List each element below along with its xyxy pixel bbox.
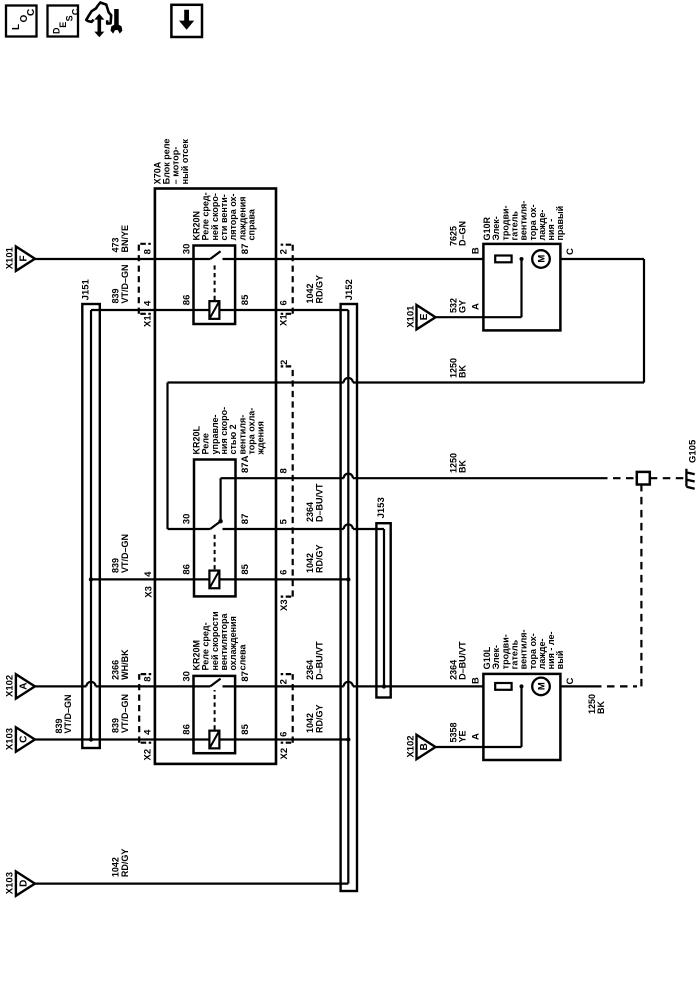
label KR20M bbox=[192, 611, 248, 670]
G10R motor symbol M bbox=[532, 250, 550, 268]
relay KR20M box bbox=[194, 676, 236, 753]
svg-text:X2: X2 bbox=[142, 749, 153, 761]
relay KR20L box bbox=[194, 460, 236, 597]
svg-text:6: 6 bbox=[279, 732, 290, 737]
svg-text:87A: 87A bbox=[240, 455, 251, 473]
G10L pin letters bbox=[471, 677, 576, 740]
svg-text:8: 8 bbox=[279, 468, 290, 473]
KR20M pin labels bbox=[181, 671, 251, 735]
connector X101 pin F (right fan feed) bbox=[5, 246, 35, 271]
svg-text:GY: GY bbox=[458, 300, 468, 313]
wire label 2364 D-BU/VT b bbox=[305, 641, 324, 680]
svg-text:4: 4 bbox=[143, 571, 154, 577]
label KR20N bbox=[192, 192, 257, 240]
ground dashed stem to G105 bbox=[650, 477, 684, 479]
wire label 5358 YE bbox=[448, 722, 467, 742]
G10L internal resistor bbox=[495, 683, 511, 690]
wire label 1250 BK a bbox=[448, 358, 467, 378]
G10R pin letters bbox=[471, 247, 576, 310]
wire 1250 BK : KR20L.87A to X3-8 to ground node bbox=[236, 477, 344, 479]
svg-text:YE: YE bbox=[458, 730, 468, 742]
svg-text:A: A bbox=[471, 733, 482, 740]
svg-text:6: 6 bbox=[279, 570, 290, 575]
KR20L pin labels bbox=[181, 455, 251, 574]
label X70A bbox=[152, 139, 189, 185]
wire label 2364 D-BU/VT c bbox=[448, 641, 467, 680]
wire 839 VT/D-GN : splice J151 to X3-4 to KR20L coil 86 bbox=[91, 578, 209, 580]
ground splice node (square) bbox=[637, 472, 650, 485]
svg-text:2: 2 bbox=[278, 249, 289, 254]
wire label 839 VT/D-GN c bbox=[54, 694, 73, 733]
svg-text:X103: X103 bbox=[5, 872, 16, 894]
connector X3 dashed line (right, pins 2/8/5/6) bbox=[281, 595, 292, 597]
label G10L bbox=[482, 630, 565, 670]
wire label 1250 BK c bbox=[587, 694, 606, 714]
svg-text:30: 30 bbox=[181, 514, 192, 525]
svg-text:2: 2 bbox=[279, 679, 290, 684]
wire 839 VT/D-GN : splice J151 to X1-4 to KR20N coil 86 bbox=[91, 309, 209, 311]
connector X2 dashed line (right, pins 2/6) bbox=[281, 742, 292, 744]
wire label 839 VT/D-GN bbox=[111, 264, 130, 303]
svg-text:A: A bbox=[471, 303, 482, 310]
svg-text:C: C bbox=[26, 9, 37, 16]
G10L motor symbol M bbox=[532, 678, 550, 696]
svg-text:ный отсек: ный отсек bbox=[180, 139, 190, 185]
icon box with down arrow bbox=[171, 5, 202, 37]
relay block X70A box bbox=[155, 189, 276, 764]
svg-text:85: 85 bbox=[240, 723, 251, 734]
connector X103 pin D (fan low feed) bbox=[5, 871, 35, 895]
svg-text:VT/D–GN: VT/D–GN bbox=[120, 534, 130, 573]
svg-text:85: 85 bbox=[240, 294, 251, 305]
label KR20L bbox=[192, 407, 266, 456]
wire label 1042 RD/GY b bbox=[305, 544, 324, 573]
relay KR20M coil-blade dashed link bbox=[214, 690, 216, 730]
svg-text:J151: J151 bbox=[80, 278, 91, 300]
svg-text:L: L bbox=[11, 24, 22, 30]
svg-text:M: M bbox=[536, 255, 547, 263]
wire 2366 WH/BK : X102-A to X2-8 to KR20M.30 bbox=[35, 685, 87, 687]
connector X1 dashed line (left, pins 8/4) bbox=[140, 313, 151, 315]
wire label 1042 RD/GY d bbox=[111, 849, 130, 878]
wire label 839 VT/D-GN d bbox=[111, 694, 130, 733]
wire label 7625 D-GN bbox=[448, 221, 467, 246]
icon LOC button bbox=[6, 6, 37, 37]
svg-text:D–BU/VT: D–BU/VT bbox=[314, 641, 324, 680]
svg-text:слева: слева bbox=[237, 643, 247, 670]
svg-text:30: 30 bbox=[181, 244, 192, 255]
svg-text:VT/D–GN: VT/D–GN bbox=[120, 264, 130, 303]
wire label 1042 RD/GY c bbox=[305, 704, 324, 733]
svg-text:X103: X103 bbox=[5, 728, 16, 750]
svg-text:X102: X102 bbox=[405, 735, 416, 757]
splice pack J153 bbox=[376, 523, 390, 697]
wire label 2366 WH/BK bbox=[111, 649, 130, 680]
wire label 532 GY bbox=[448, 298, 467, 313]
wire 473 BN/YE : X101-F down to KR20N pin 30 bbox=[35, 258, 210, 260]
relay KR20L coil 86-85 bbox=[209, 571, 219, 589]
svg-text:X1: X1 bbox=[279, 314, 290, 326]
svg-text:A: A bbox=[18, 682, 29, 689]
connector X101 pin E (right fan low) bbox=[405, 305, 435, 330]
svg-text:C: C bbox=[70, 8, 80, 15]
relay KR20L switch blade 30-87/87A bbox=[210, 521, 220, 529]
wire 1250 BK : G10L pin C to ground node (dashed) bbox=[560, 685, 594, 687]
relay KR20N coil-blade dashed link bbox=[214, 263, 216, 301]
svg-text:X2: X2 bbox=[279, 748, 290, 760]
relay KR20N switch blade 30-87 bbox=[210, 251, 220, 259]
ground symbol G105 bbox=[686, 439, 698, 489]
svg-text:C: C bbox=[18, 736, 29, 743]
icon car outline with arrows and wrench bbox=[86, 3, 122, 38]
relay KR20M coil 86-85 bbox=[209, 731, 219, 749]
KR20N pin labels bbox=[181, 244, 251, 306]
svg-text:BK: BK bbox=[458, 365, 468, 378]
motor G10L box bbox=[483, 674, 560, 760]
svg-text:C: C bbox=[565, 678, 576, 685]
svg-text:правый: правый bbox=[555, 206, 565, 241]
svg-text:X102: X102 bbox=[5, 675, 16, 697]
svg-text:J153: J153 bbox=[376, 497, 387, 518]
svg-text:87: 87 bbox=[240, 244, 251, 255]
svg-text:D–GN: D–GN bbox=[458, 221, 468, 246]
svg-text:S: S bbox=[64, 15, 74, 21]
svg-text:G105: G105 bbox=[688, 439, 699, 463]
svg-text:85: 85 bbox=[240, 563, 251, 574]
svg-text:WH/BK: WH/BK bbox=[120, 649, 130, 680]
wire 1042 RD/GY : X103-D to splice J152 bbox=[35, 882, 348, 884]
wire label 473 BN/YE bbox=[111, 225, 130, 253]
wire 1042 RD/GY : KR20N.85 to X1-6 to splice J152 bbox=[219, 309, 348, 311]
svg-text:86: 86 bbox=[181, 564, 192, 575]
wire 2364 D-BU/VT : KR20M.87 to X2-2 to J153 to G10L pin B bbox=[223, 685, 344, 687]
svg-text:RD/GY: RD/GY bbox=[314, 544, 324, 573]
svg-text:X3: X3 bbox=[279, 599, 290, 611]
wire 1042 RD/GY : KR20M.85 to X2-6 to splice J152 bbox=[219, 738, 348, 740]
connector X103 pin C (left fan 839 feed) bbox=[5, 727, 35, 751]
label G10R bbox=[482, 201, 565, 241]
connector X102 pin B (left fan low) bbox=[405, 735, 435, 759]
svg-text:2: 2 bbox=[279, 360, 290, 365]
connector X2 dashed line (left, pins 8/4) bbox=[141, 742, 152, 744]
wire 839 VT/D-GN : X103-C to splice J151 bbox=[35, 738, 91, 740]
splice pack J151 bbox=[82, 304, 100, 748]
svg-text:8: 8 bbox=[142, 249, 153, 254]
svg-text:BK: BK bbox=[596, 701, 606, 714]
svg-text:B: B bbox=[419, 743, 430, 750]
svg-text:E: E bbox=[58, 22, 68, 28]
wire 1250 BK : G10R pin C to X3-2 to KR20L pin 30 bbox=[560, 258, 644, 260]
wire 532 GY : X101-E to G10R pin A bbox=[435, 316, 522, 318]
svg-text:D: D bbox=[18, 880, 29, 887]
svg-text:J152: J152 bbox=[344, 279, 355, 300]
svg-text:B: B bbox=[471, 677, 482, 684]
svg-text:D–BU/VT: D–BU/VT bbox=[458, 641, 468, 680]
svg-text:X101: X101 bbox=[405, 305, 416, 328]
svg-text:E: E bbox=[419, 313, 430, 320]
motor G10R box bbox=[483, 244, 560, 331]
svg-text:BN/YE: BN/YE bbox=[120, 225, 130, 253]
wire 7625 D-GN : KR20N.87 to X1-2 to G10R pin B bbox=[223, 258, 484, 260]
svg-text:86: 86 bbox=[181, 724, 192, 735]
G10R internal resistor bbox=[495, 256, 511, 263]
svg-text:30: 30 bbox=[181, 671, 192, 682]
svg-text:4: 4 bbox=[142, 729, 153, 735]
KR20L 87A branch bbox=[220, 478, 222, 521]
wire 2364 D-BU/VT : KR20L.87 to X3-5 to splice J153 bbox=[223, 528, 344, 530]
relay KR20N box bbox=[194, 246, 236, 325]
connector X102 pin A (left fan hi feed) bbox=[5, 674, 35, 698]
svg-text:5: 5 bbox=[279, 518, 290, 524]
relay KR20M switch blade 30-87 bbox=[210, 679, 220, 687]
svg-text:4: 4 bbox=[142, 300, 153, 306]
connector X3 dashed line (left, pin 4) bbox=[143, 571, 155, 598]
svg-text:RD/GY: RD/GY bbox=[120, 849, 130, 878]
connector X1 dashed line (right, pins 2/6) bbox=[281, 313, 292, 315]
svg-text:87: 87 bbox=[240, 671, 251, 682]
svg-text:RD/GY: RD/GY bbox=[314, 275, 324, 304]
wire 1042 RD/GY : KR20L.85 to X3-6 to splice J152 bbox=[219, 578, 348, 580]
svg-text:X101: X101 bbox=[5, 246, 16, 269]
svg-text:6: 6 bbox=[278, 300, 289, 305]
wire label 1250 BK b bbox=[448, 453, 467, 473]
svg-text:D–BU/VT: D–BU/VT bbox=[314, 483, 324, 522]
wire label 839 VT/D-GN b bbox=[111, 534, 130, 573]
wire 839 VT/D-GN : J151 to X2-4 to KR20M coil 86 bbox=[91, 738, 209, 740]
svg-text:RD/GY: RD/GY bbox=[314, 704, 324, 733]
relay KR20L coil-blade dashed link bbox=[214, 533, 216, 570]
svg-text:F: F bbox=[18, 255, 29, 261]
svg-text:X1: X1 bbox=[142, 315, 153, 327]
svg-text:C: C bbox=[565, 248, 576, 255]
splice pack J152 bbox=[341, 304, 357, 891]
wire 5358 YE : X102-B to G10L pin A bbox=[436, 746, 522, 748]
svg-text:X3: X3 bbox=[143, 586, 154, 598]
svg-text:вый: вый bbox=[555, 651, 565, 670]
svg-text:M: M bbox=[536, 682, 547, 690]
svg-text:VT/D–GN: VT/D–GN bbox=[63, 694, 73, 733]
svg-text:8: 8 bbox=[142, 676, 153, 681]
svg-text:86: 86 bbox=[181, 295, 192, 306]
svg-text:B: B bbox=[471, 247, 482, 254]
svg-text:BK: BK bbox=[458, 460, 468, 473]
svg-text:ждения: ждения bbox=[256, 421, 266, 455]
wire label 2364 D-BU/VT a bbox=[305, 483, 324, 522]
wire label 1042 RD/GY bbox=[305, 275, 324, 304]
svg-text:VT/D–GN: VT/D–GN bbox=[120, 694, 130, 733]
icon DESC button bbox=[48, 6, 81, 37]
svg-text:справа: справа bbox=[246, 208, 256, 240]
svg-text:87: 87 bbox=[240, 514, 251, 525]
relay KR20N coil 86-85 bbox=[209, 301, 219, 319]
